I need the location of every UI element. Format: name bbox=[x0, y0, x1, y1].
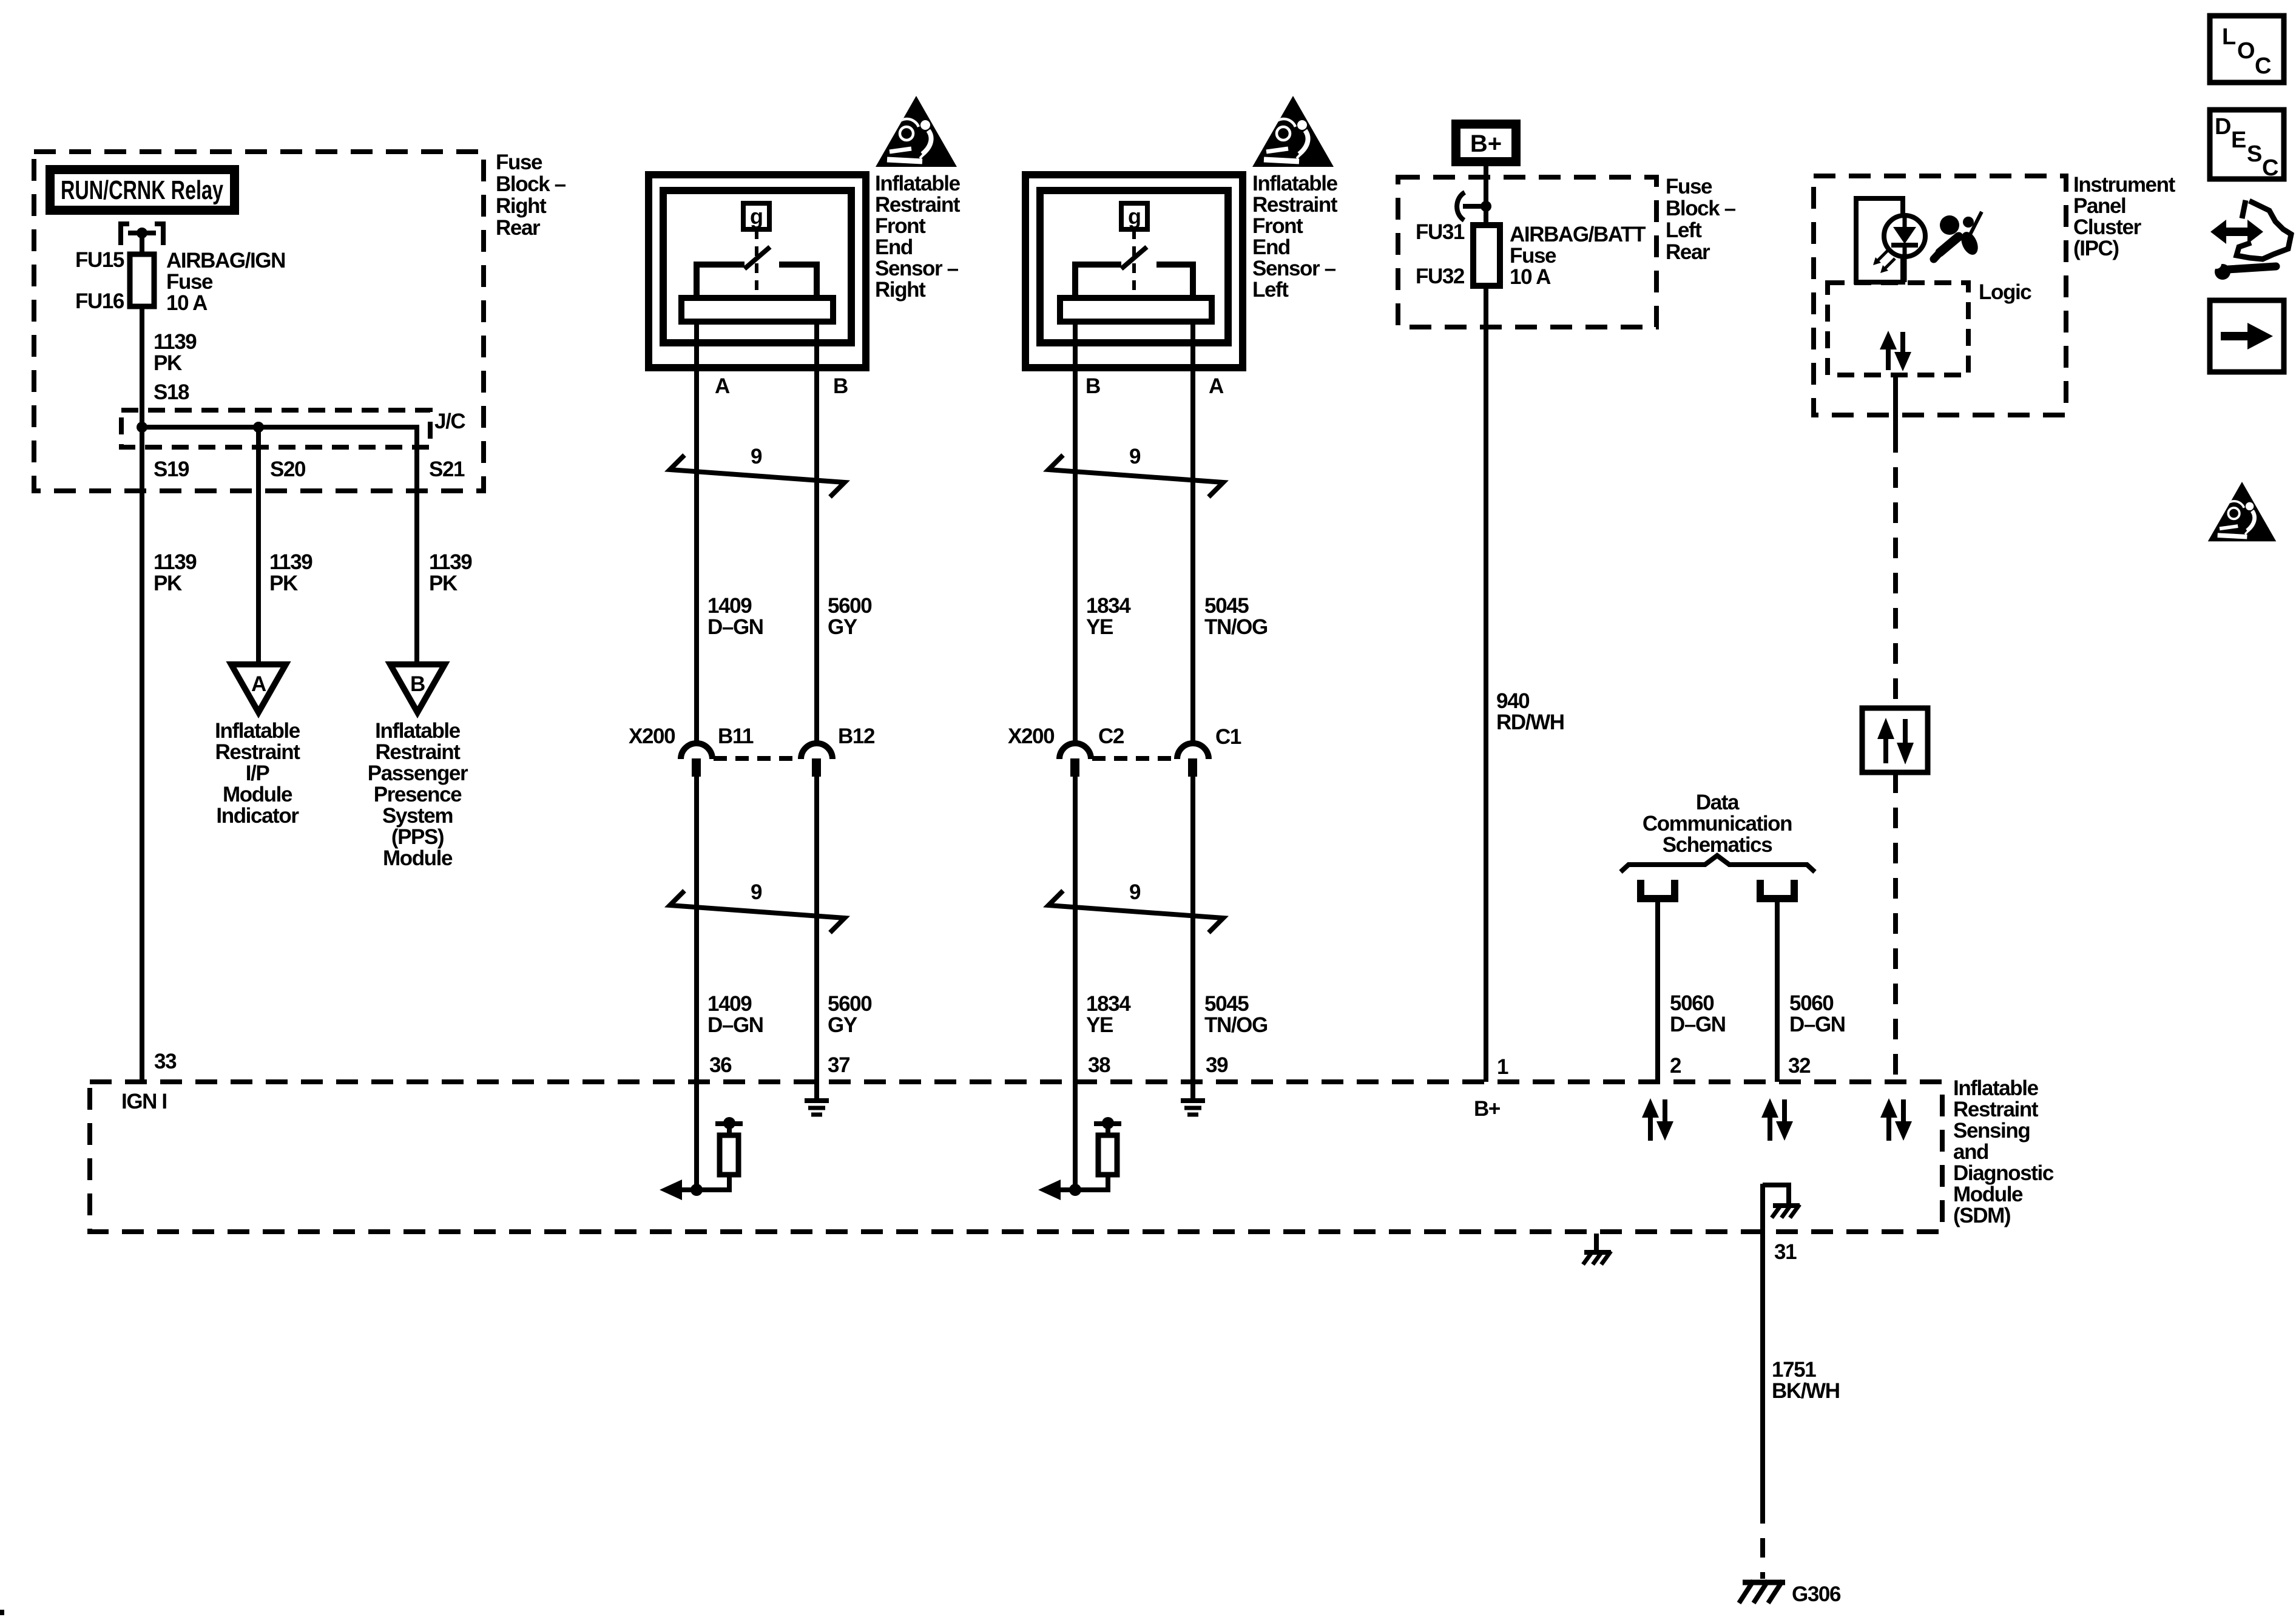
node S20 dot bbox=[253, 422, 264, 433]
svg-text:9: 9 bbox=[751, 445, 762, 468]
label Fuse Block Left Rear bbox=[1666, 175, 1736, 264]
svg-text:1139: 1139 bbox=[154, 550, 197, 574]
labels 5060 D-GN bbox=[1670, 991, 1845, 1036]
wire labels 1834 YE / 5045 TN/OG upper bbox=[1086, 594, 1268, 639]
dashed wire to G306 bbox=[1760, 1504, 1765, 1579]
IPC dashed box bbox=[1814, 176, 2066, 415]
svg-text:TN/OG: TN/OG bbox=[1204, 1013, 1268, 1037]
ground symbol at pin 37 bbox=[805, 1101, 829, 1115]
serial data arrows pin 2 bbox=[1642, 1098, 1673, 1141]
svg-text:System: System bbox=[382, 804, 453, 828]
svg-text:Left: Left bbox=[1666, 218, 1702, 242]
svg-text:Restraint: Restraint bbox=[215, 740, 300, 764]
node S19 dot bbox=[137, 422, 147, 433]
dashed actuator stem bbox=[1132, 229, 1136, 297]
stray mark bottom-left corner bbox=[0, 1610, 4, 1615]
svg-text:B+: B+ bbox=[1470, 130, 1502, 157]
svg-text:g: g bbox=[1128, 204, 1141, 229]
svg-text:Restraint: Restraint bbox=[875, 193, 961, 217]
LED circle bbox=[1884, 215, 1925, 257]
label Instrument Panel Cluster (IPC) bbox=[2073, 173, 2176, 260]
svg-text:5060: 5060 bbox=[1789, 991, 1834, 1015]
serial data gateway box bbox=[1862, 708, 1928, 772]
connector X200 pin C1 bbox=[1177, 743, 1209, 777]
go-to arrow box bbox=[2210, 300, 2284, 372]
svg-text:Communication: Communication bbox=[1643, 812, 1792, 836]
wrench icon bbox=[2212, 259, 2276, 280]
svg-text:IGN I: IGN I bbox=[121, 1090, 167, 1113]
svg-text:Inflatable: Inflatable bbox=[875, 172, 961, 195]
svg-text:B: B bbox=[1086, 374, 1100, 398]
svg-text:S: S bbox=[2247, 141, 2262, 167]
g-sensor box bbox=[743, 203, 769, 229]
svg-text:(PPS): (PPS) bbox=[391, 825, 444, 849]
svg-text:L: L bbox=[2222, 24, 2236, 50]
sensor base bar bbox=[1060, 298, 1212, 322]
svg-text:Instrument: Instrument bbox=[2073, 173, 2176, 197]
svg-text:RD/WH: RD/WH bbox=[1496, 711, 1564, 734]
svg-text:GY: GY bbox=[828, 615, 857, 639]
sensor inner box bbox=[1040, 191, 1228, 343]
svg-text:Module: Module bbox=[1953, 1183, 2023, 1206]
junction block J/C dashed box bbox=[121, 410, 430, 447]
vehicle outline icon bbox=[2237, 200, 2291, 259]
fuse FU15/FU16 AIRBAG/IGN 10A bbox=[130, 254, 154, 306]
vehicle data icon double arrow bbox=[2210, 220, 2263, 244]
svg-text:O: O bbox=[2237, 38, 2255, 64]
svg-text:10 A: 10 A bbox=[1510, 265, 1551, 289]
svg-text:31: 31 bbox=[1774, 1240, 1797, 1264]
svg-text:FU32: FU32 bbox=[1416, 265, 1465, 288]
svg-text:9: 9 bbox=[751, 880, 762, 904]
svg-text:Front: Front bbox=[1252, 214, 1303, 238]
svg-text:Sensor –: Sensor – bbox=[875, 257, 959, 280]
svg-text:38: 38 bbox=[1088, 1053, 1110, 1077]
sensor outer box bbox=[1025, 175, 1243, 368]
svg-text:5600: 5600 bbox=[828, 594, 872, 618]
wire B+ to fuse bbox=[1484, 166, 1488, 225]
svg-text:E: E bbox=[2231, 127, 2246, 153]
dashed serial data line upper bbox=[1893, 432, 1898, 708]
svg-text:Module: Module bbox=[383, 846, 453, 870]
svg-text:FU16: FU16 bbox=[75, 289, 124, 313]
svg-text:Inflatable: Inflatable bbox=[1252, 172, 1338, 195]
svg-text:TN/OG: TN/OG bbox=[1204, 615, 1268, 639]
svg-text:PK: PK bbox=[154, 572, 182, 595]
internal case ground stub bbox=[1763, 1185, 1789, 1204]
pin labels 36 37 bbox=[709, 1053, 849, 1077]
svg-text:D–GN: D–GN bbox=[1670, 1013, 1726, 1036]
svg-text:End: End bbox=[875, 235, 913, 259]
wire 5060 D-GN to pin 2 bbox=[1655, 899, 1660, 1082]
wire 940 RD/WH to pin 1 bbox=[1484, 286, 1488, 1082]
pin labels B A bbox=[1086, 374, 1224, 398]
svg-text:RUN/CRNK Relay: RUN/CRNK Relay bbox=[61, 175, 223, 205]
connector X200 pin C2 bbox=[1059, 743, 1091, 777]
svg-text:Restraint: Restraint bbox=[1953, 1098, 2039, 1121]
airbag warning triangle left sensor bbox=[1252, 96, 1334, 167]
svg-text:S21: S21 bbox=[429, 457, 465, 481]
wire junction bus S19-S21 bbox=[142, 427, 417, 664]
switch contact right bbox=[1156, 265, 1193, 299]
svg-text:A: A bbox=[715, 374, 730, 398]
svg-text:D–GN: D–GN bbox=[707, 615, 763, 639]
fuse block left rear dashed box bbox=[1398, 177, 1656, 327]
wire logic to IPC edge bbox=[1893, 375, 1898, 432]
svg-text:Block –: Block – bbox=[1666, 197, 1736, 220]
twisted pair marker 9 lower right sensor bbox=[670, 880, 845, 933]
svg-text:1834: 1834 bbox=[1086, 594, 1131, 618]
airbag telltale icon bbox=[1934, 212, 1982, 259]
LED light arrows bbox=[1873, 251, 1895, 273]
fuse block right rear dashed box bbox=[34, 152, 484, 491]
relay output terminal bracket bbox=[121, 224, 163, 245]
serial data arrows pin 32 bbox=[1761, 1098, 1793, 1141]
relay K RUN/CRNK Relay box bbox=[46, 165, 239, 215]
logic serial arrows bbox=[1880, 331, 1911, 371]
LOC box bbox=[2210, 16, 2284, 83]
svg-text:5060: 5060 bbox=[1670, 991, 1714, 1015]
svg-text:D: D bbox=[2215, 114, 2231, 140]
svg-text:Sensing: Sensing bbox=[1953, 1119, 2030, 1143]
label Inflatable Restraint Front End Sensor Right bbox=[875, 172, 961, 302]
svg-text:and: and bbox=[1953, 1140, 1988, 1164]
svg-text:J/C: J/C bbox=[434, 410, 465, 433]
svg-text:Right: Right bbox=[875, 278, 926, 302]
svg-text:1409: 1409 bbox=[707, 992, 752, 1016]
svg-text:G306: G306 bbox=[1792, 1582, 1841, 1606]
fuse FU31/FU32 AIRBAG/BATT 10A bbox=[1473, 225, 1500, 286]
DESC box bbox=[2210, 110, 2284, 181]
wire relay to fuse FU15 bbox=[140, 233, 144, 254]
wire sensor pin B down bbox=[814, 322, 819, 744]
label Inflatable Restraint Sensing and Diagnostic Module (SDM) bbox=[1953, 1076, 2054, 1227]
SDM dashed box bbox=[90, 1082, 1942, 1232]
svg-text:1751: 1751 bbox=[1772, 1358, 1816, 1382]
svg-text:g: g bbox=[750, 204, 763, 229]
svg-text:Inflatable: Inflatable bbox=[215, 719, 300, 743]
switch contact left bbox=[697, 265, 745, 299]
svg-text:Left: Left bbox=[1252, 278, 1289, 302]
case ground stub below SDM bbox=[1594, 1234, 1599, 1251]
svg-text:1139: 1139 bbox=[429, 550, 472, 574]
wire B12 to pin 37 bbox=[814, 775, 819, 1099]
wire sensor pin A down bbox=[1190, 322, 1195, 744]
svg-text:Rear: Rear bbox=[496, 216, 541, 240]
twisted pair marker 9 upper left sensor bbox=[1048, 445, 1223, 497]
svg-text:A: A bbox=[251, 672, 266, 696]
svg-text:AIRBAG/BATT: AIRBAG/BATT bbox=[1510, 223, 1646, 246]
indicator LED loop bbox=[1856, 198, 1903, 282]
airbag warning triangle right margin bbox=[2208, 482, 2277, 541]
dashed actuator stem bbox=[755, 229, 758, 297]
dashed serial data line lower bbox=[1893, 772, 1898, 1081]
svg-text:Restraint: Restraint bbox=[1252, 193, 1338, 217]
svg-text:C: C bbox=[2262, 155, 2278, 181]
labels X200 C2 C1 bbox=[1008, 724, 1241, 749]
svg-text:2: 2 bbox=[1670, 1054, 1681, 1078]
label wire 940 RD/WH bbox=[1496, 689, 1564, 734]
svg-text:32: 32 bbox=[1788, 1054, 1811, 1078]
connector X200 pin B12 bbox=[801, 743, 832, 777]
svg-text:S20: S20 bbox=[270, 457, 306, 481]
svg-text:Indicator: Indicator bbox=[216, 804, 299, 828]
svg-text:Cluster: Cluster bbox=[2073, 215, 2142, 239]
terminal triangle A bbox=[231, 664, 286, 712]
svg-text:B12: B12 bbox=[838, 724, 875, 748]
off-page connector right bbox=[1760, 880, 1794, 899]
svg-text:S19: S19 bbox=[154, 457, 189, 481]
LED diode bbox=[1891, 216, 1918, 282]
switch contact right bbox=[779, 265, 817, 299]
B+ terminal box bbox=[1451, 120, 1521, 166]
g-sensor box bbox=[1121, 203, 1147, 229]
switch blade bbox=[1121, 247, 1147, 269]
svg-text:AIRBAG/IGN: AIRBAG/IGN bbox=[166, 249, 285, 272]
svg-text:Panel: Panel bbox=[2073, 194, 2125, 218]
svg-text:Data: Data bbox=[1696, 791, 1740, 814]
svg-text:Diagnostic: Diagnostic bbox=[1953, 1161, 2054, 1185]
svg-text:33: 33 bbox=[154, 1050, 177, 1073]
svg-text:PK: PK bbox=[429, 572, 458, 595]
label wire 1139 PK bbox=[154, 330, 197, 375]
svg-text:Fuse: Fuse bbox=[166, 270, 213, 294]
wire 5060 D-GN to pin 32 bbox=[1775, 899, 1780, 1082]
wire S20 to triangle A bbox=[256, 427, 261, 664]
wire sensor pin A down bbox=[694, 322, 699, 744]
label Inflatable Restraint PPS Module bbox=[368, 719, 468, 870]
ground symbol at pin 39 bbox=[1181, 1101, 1205, 1115]
svg-text:D–GN: D–GN bbox=[1789, 1013, 1845, 1036]
svg-text:BK/WH: BK/WH bbox=[1772, 1379, 1840, 1403]
logic dashed box bbox=[1828, 283, 1968, 375]
pin labels 38 39 bbox=[1088, 1053, 1228, 1077]
wire sensor pin B down bbox=[1073, 322, 1078, 744]
svg-text:36: 36 bbox=[709, 1053, 732, 1077]
labels 1139 PK x3 bbox=[154, 550, 472, 595]
label Inflatable Restraint I/P Module Indicator bbox=[215, 719, 300, 828]
brace bbox=[1621, 856, 1815, 872]
junction dot on relay terminal bbox=[137, 228, 147, 238]
svg-text:1409: 1409 bbox=[707, 594, 752, 618]
svg-text:X200: X200 bbox=[629, 724, 675, 748]
svg-text:5045: 5045 bbox=[1204, 594, 1249, 618]
wire labels 1409 D-GN / 5600 GY upper bbox=[707, 594, 872, 639]
labels S19 S20 S21 bbox=[154, 457, 465, 481]
svg-text:Presence: Presence bbox=[374, 783, 462, 806]
svg-text:Logic: Logic bbox=[1979, 280, 2031, 304]
svg-text:B11: B11 bbox=[718, 724, 754, 748]
svg-text:Inflatable: Inflatable bbox=[1953, 1076, 2039, 1100]
svg-text:PK: PK bbox=[154, 351, 182, 375]
svg-text:37: 37 bbox=[828, 1053, 849, 1077]
svg-text:Module: Module bbox=[223, 783, 292, 806]
svg-text:5045: 5045 bbox=[1204, 992, 1249, 1016]
svg-text:B: B bbox=[410, 672, 425, 696]
svg-text:Sensor –: Sensor – bbox=[1252, 257, 1336, 280]
svg-text:End: End bbox=[1252, 235, 1290, 259]
switch blade bbox=[745, 247, 770, 269]
twisted pair marker 9 lower left sensor bbox=[1048, 880, 1223, 933]
gateway arrows bbox=[1877, 718, 1914, 765]
svg-text:9: 9 bbox=[1129, 880, 1141, 904]
svg-text:Right: Right bbox=[496, 194, 547, 218]
wire B11 to pin 36 bbox=[694, 775, 699, 1190]
wire C2 to pin 38 bbox=[1073, 775, 1078, 1190]
wire labels 1409 D-GN / 5600 GY lower bbox=[707, 992, 872, 1037]
twisted pair marker 9 upper right sensor bbox=[670, 445, 845, 497]
connector X200 pin B11 bbox=[681, 743, 712, 777]
serial data arrows IPC line bbox=[1880, 1098, 1912, 1141]
label wire 1751 BK/WH bbox=[1772, 1358, 1840, 1403]
tap clip symbol bbox=[1457, 192, 1491, 220]
svg-text:Passenger: Passenger bbox=[368, 761, 468, 785]
svg-text:PK: PK bbox=[269, 572, 298, 595]
svg-text:Inflatable: Inflatable bbox=[375, 719, 461, 743]
svg-text:YE: YE bbox=[1086, 1013, 1113, 1037]
svg-text:5600: 5600 bbox=[828, 992, 872, 1016]
svg-text:940: 940 bbox=[1496, 689, 1530, 713]
svg-text:C2: C2 bbox=[1098, 724, 1124, 748]
switch contact left bbox=[1075, 265, 1121, 299]
wire 1139 PK fuse to junction S18 bbox=[140, 306, 144, 1082]
svg-text:B: B bbox=[833, 374, 848, 398]
svg-text:FU31: FU31 bbox=[1416, 220, 1465, 244]
svg-text:(IPC): (IPC) bbox=[2073, 237, 2119, 260]
sensor outer box bbox=[649, 175, 866, 368]
svg-text:GY: GY bbox=[828, 1013, 857, 1037]
pin labels 2 32 bbox=[1670, 1054, 1811, 1078]
labels X200 B11 B12 bbox=[629, 724, 875, 748]
svg-text:10 A: 10 A bbox=[166, 291, 208, 315]
svg-text:C1: C1 bbox=[1215, 725, 1241, 749]
svg-text:A: A bbox=[1209, 374, 1224, 398]
svg-text:Fuse: Fuse bbox=[496, 150, 542, 174]
svg-text:Block –: Block – bbox=[496, 172, 566, 196]
svg-text:1139: 1139 bbox=[269, 550, 312, 574]
svg-text:X200: X200 bbox=[1008, 724, 1055, 748]
label Fuse Block Right Rear bbox=[496, 150, 566, 240]
off-page connector left bbox=[1641, 880, 1675, 899]
chassis ground symbol below SDM bbox=[1583, 1251, 1611, 1264]
svg-text:Fuse: Fuse bbox=[1666, 175, 1712, 198]
svg-text:Rear: Rear bbox=[1666, 240, 1710, 264]
svg-text:YE: YE bbox=[1086, 615, 1113, 639]
svg-text:1834: 1834 bbox=[1086, 992, 1131, 1016]
label Data Communication Schematics bbox=[1643, 791, 1792, 857]
sensor inner box bbox=[663, 191, 851, 343]
svg-text:I/P: I/P bbox=[246, 761, 270, 785]
wire C1 to pin 39 bbox=[1190, 775, 1195, 1099]
svg-text:FU15: FU15 bbox=[75, 248, 124, 272]
svg-text:39: 39 bbox=[1206, 1053, 1228, 1077]
connector X200 dashed link bbox=[1092, 756, 1176, 761]
wire pin 31 bbox=[1760, 1184, 1765, 1504]
svg-text:B+: B+ bbox=[1474, 1097, 1501, 1121]
internal chassis ground symbol bbox=[1772, 1204, 1800, 1218]
svg-text:(SDM): (SDM) bbox=[1953, 1204, 2010, 1227]
ground G306 symbol bbox=[1739, 1581, 1785, 1603]
SDM internal squib driver pin 36: arrow and resistor bbox=[660, 1117, 743, 1200]
svg-text:1: 1 bbox=[1497, 1055, 1508, 1079]
svg-text:D–GN: D–GN bbox=[707, 1013, 763, 1037]
svg-text:1139: 1139 bbox=[154, 330, 197, 354]
label Inflatable Restraint Front End Sensor Left bbox=[1252, 172, 1338, 302]
sensor base bar bbox=[681, 298, 833, 322]
svg-text:C: C bbox=[2255, 53, 2271, 79]
svg-text:Front: Front bbox=[875, 214, 926, 238]
wire labels 1834 YE / 5045 TN/OG lower bbox=[1086, 992, 1268, 1037]
svg-text:Fuse: Fuse bbox=[1510, 244, 1556, 268]
SDM internal squib driver pin 38: arrow and resistor bbox=[1038, 1117, 1121, 1200]
terminal triangle B bbox=[390, 664, 445, 712]
svg-text:Restraint: Restraint bbox=[375, 740, 461, 764]
svg-text:S18: S18 bbox=[154, 380, 189, 404]
airbag warning triangle right sensor bbox=[876, 96, 957, 167]
svg-text:9: 9 bbox=[1129, 445, 1141, 468]
pin labels A B bbox=[715, 374, 848, 398]
connector X200 dashed link bbox=[714, 756, 800, 761]
